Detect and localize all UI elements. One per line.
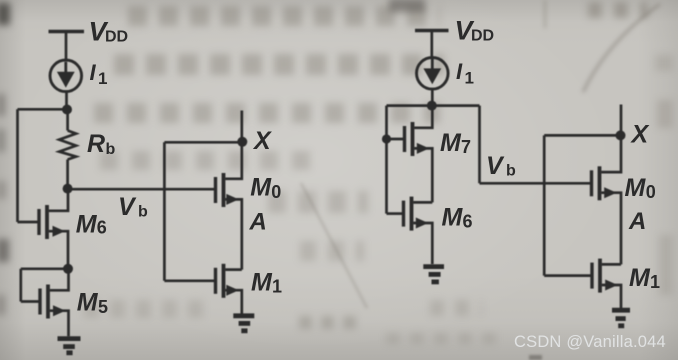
svg-text:DD: DD — [105, 28, 128, 45]
wire stub above node X (right) — [620, 105, 623, 136]
svg-text:M: M — [77, 289, 99, 317]
wire left rail down to M6 gate (right) — [385, 106, 388, 214]
current source I1 (right) arrow — [423, 59, 441, 85]
wire X to M1 gate loop vertical (right) — [543, 135, 546, 275]
transistor M7 channel bar — [411, 122, 415, 156]
wire Vb bus to M0 gate (right) — [480, 182, 591, 185]
node X junction dot (right) — [616, 130, 626, 140]
transistor M0 (left) source arrow — [226, 194, 239, 205]
wire M7 gate lead — [387, 138, 404, 141]
transistor M1 (right) drain lead — [602, 263, 621, 266]
bleed-through text row 5 — [268, 191, 368, 213]
transistor M1 (left) source arrow — [226, 285, 239, 296]
svg-text:M: M — [629, 264, 651, 292]
transistor M0 (left) channel bar — [222, 173, 226, 207]
wire M1 gate lead (left) — [164, 279, 214, 282]
bleed-through text row 6 — [300, 241, 364, 261]
left margin ink blob 3 — [0, 129, 5, 152]
caption (b) cut at bottom — [529, 355, 542, 360]
left margin ink blob 1 — [0, 3, 10, 25]
svg-text:DD: DD — [471, 28, 494, 45]
svg-text:0: 0 — [271, 182, 281, 202]
svg-text:A: A — [628, 208, 646, 235]
transistor M7 source arrow — [417, 143, 430, 154]
svg-text:0: 0 — [646, 182, 656, 202]
wire VDD to current source (right) — [430, 31, 433, 59]
left margin ink blob 4 — [0, 181, 6, 199]
svg-text:M: M — [251, 268, 273, 296]
ground below M6 (right) — [423, 267, 444, 282]
transistor M0 (left) gate bar — [214, 177, 217, 203]
ground below M1 (right) — [612, 310, 630, 326]
svg-text:1: 1 — [98, 69, 107, 88]
wire M1 gate lead (right) — [544, 274, 590, 277]
bleed-through text row 3 — [94, 103, 440, 123]
svg-text:I: I — [456, 59, 463, 84]
wire Rb to Vb node — [66, 160, 69, 189]
svg-text:V: V — [118, 193, 137, 221]
transistor M1 (left) channel bar — [222, 264, 226, 298]
svg-text:R: R — [87, 130, 105, 158]
svg-text:X: X — [630, 121, 650, 149]
svg-text:V: V — [486, 152, 505, 180]
wire M6 gate lead (right) — [387, 212, 403, 215]
current source I1 (left) circle — [50, 60, 82, 92]
svg-text:b: b — [138, 203, 148, 220]
node junction dot below I1 (right) — [427, 101, 437, 111]
svg-text:1: 1 — [650, 272, 660, 292]
wire left rail down to M6 gate — [16, 109, 19, 222]
svg-text:6: 6 — [463, 212, 473, 232]
wire stub above node X (left) — [240, 111, 243, 143]
bleed-through text row 1 — [128, 6, 440, 26]
transistor M6 (left) drain lead — [49, 193, 68, 211]
bleed-through text row 7 right — [430, 300, 482, 316]
current source I1 (right) circle — [417, 58, 449, 90]
transistor M5 drain lead — [50, 269, 69, 291]
wire node to resistor Rb — [66, 109, 69, 130]
transistor M0 (right) source lead — [601, 193, 621, 265]
transistor M6 (left) source arrow — [53, 226, 66, 237]
CSDN watermark — [514, 333, 678, 355]
transistor M0 (left) drain lead — [225, 142, 242, 179]
left margin ink blob 5 — [0, 239, 9, 262]
svg-text:1: 1 — [272, 276, 282, 296]
VDD supply bar (left) — [49, 30, 85, 33]
wire node to left rail — [18, 108, 68, 111]
transistor M1 (left) source lead — [225, 290, 242, 316]
bleed-through text row 2 — [114, 54, 444, 75]
wire right rail from node down to Vb (right) — [478, 106, 481, 184]
bleed-through text row 1 right — [588, 2, 648, 18]
svg-text:M: M — [625, 174, 647, 202]
svg-text:b: b — [106, 141, 116, 158]
left margin ink blob 6 — [0, 295, 5, 315]
node Vb junction dot (left) — [63, 184, 73, 194]
bleed-through text row 4 — [100, 151, 315, 170]
wire M6 gate lead — [18, 221, 38, 224]
svg-text:M: M — [440, 129, 462, 157]
transistor M5 source arrow — [53, 305, 66, 316]
transistor M6 (right) source arrow — [416, 218, 429, 229]
wire current source to node (right) — [431, 89, 434, 106]
transistor M6 (right) gate bar — [402, 201, 405, 227]
transistor M7 gate bar — [403, 126, 406, 152]
transistor M7 source lead — [414, 148, 432, 202]
wire M5 diode loop horizontal — [21, 267, 68, 270]
svg-text:5: 5 — [98, 297, 108, 317]
transistor M0 (right) drain lead — [601, 135, 621, 172]
ground below M1 (left) — [233, 316, 254, 331]
transistor M1 (left) drain lead — [225, 268, 242, 271]
current source I1 (left) arrow — [57, 62, 75, 88]
faint formula bleed bottom middle 2 — [386, 333, 506, 344]
node junction dot between M6 and M5 — [63, 264, 73, 274]
wire X to M1 gate loop: horizontal — [164, 141, 241, 144]
transistor M0 (right) source arrow — [604, 187, 617, 198]
transistor M5 source lead — [50, 311, 69, 337]
svg-text:M: M — [250, 174, 272, 202]
svg-text:I: I — [90, 60, 97, 85]
transistor M0 (left) source lead — [225, 199, 242, 269]
transistor M0 (right) channel bar — [598, 166, 602, 200]
wire X to M1 gate loop: vertical — [163, 142, 166, 280]
svg-text:A: A — [249, 208, 267, 235]
transistor M6 (right) channel bar — [410, 197, 414, 231]
transistor M1 (right) source lead — [602, 285, 621, 310]
wire VDD to current source — [65, 32, 68, 61]
wire Vb bus to M0 gate — [68, 188, 214, 191]
svg-text:b: b — [506, 162, 516, 179]
left margin ink blob 2 — [0, 94, 5, 116]
svg-text:1: 1 — [465, 69, 474, 88]
ground below M5 — [58, 339, 81, 353]
svg-text:M: M — [442, 204, 464, 232]
node X junction dot (left) — [237, 137, 247, 147]
transistor M5 gate bar — [38, 289, 41, 315]
transistor M7 drain lead — [414, 106, 432, 128]
transistor M6 (left) source lead — [49, 231, 68, 264]
svg-text:7: 7 — [461, 137, 471, 157]
resistor Rb zigzag — [59, 131, 76, 160]
transistor M6 (right) drain lead — [413, 201, 432, 204]
svg-text:6: 6 — [97, 218, 107, 238]
svg-text:X: X — [252, 127, 272, 155]
transistor M1 (right) gate bar — [590, 263, 593, 289]
wire top horizontal (right circuit) — [387, 104, 480, 107]
wire X to M1 gate loop horizontal (right) — [544, 134, 621, 137]
wire current source to node — [65, 91, 68, 109]
transistor M1 (right) source arrow — [605, 280, 618, 291]
wire M5 diode loop vertical — [19, 269, 22, 302]
top edge ink blob — [389, 0, 425, 12]
transistor M6 (left) channel bar — [45, 205, 49, 239]
bleed-through text row 7 — [84, 300, 212, 318]
node junction dot below I1 (left) — [62, 105, 72, 115]
transistor M6 (right) source lead — [413, 223, 432, 264]
transistor M6 (left) gate bar — [37, 209, 40, 235]
node junction dot at M7 gate — [382, 134, 391, 143]
faint right-edge bleed marks — [657, 100, 673, 128]
transistor M1 (right) channel bar — [598, 259, 602, 293]
transistor M1 (left) gate bar — [214, 268, 217, 294]
faint formula bleed bottom middle — [299, 316, 357, 329]
VDD supply bar (right) — [415, 29, 449, 32]
transistor M5 channel bar — [46, 285, 50, 319]
svg-text:M: M — [76, 210, 98, 238]
transistor M0 (right) gate bar — [590, 170, 593, 196]
wire M5 gate lead — [21, 300, 39, 303]
